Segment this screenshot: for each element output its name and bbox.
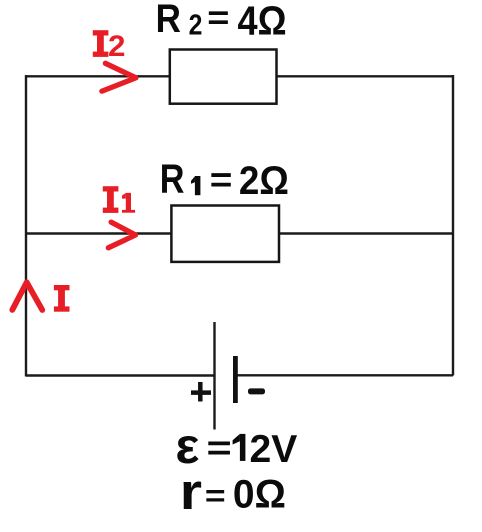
svg-text:4Ω: 4Ω: [238, 0, 287, 44]
svg-text:=: =: [207, 0, 229, 37]
svg-text:=: =: [206, 429, 231, 467]
svg-text:2V: 2V: [250, 428, 298, 471]
svg-text:r: r: [180, 464, 202, 521]
svg-text:=: =: [205, 479, 226, 513]
svg-text:=: =: [210, 160, 233, 199]
svg-text:0Ω: 0Ω: [233, 472, 286, 517]
svg-text:R: R: [156, 0, 181, 41]
svg-text:2: 2: [189, 9, 203, 41]
svg-text:2: 2: [108, 31, 125, 63]
svg-text:2Ω: 2Ω: [239, 158, 289, 203]
svg-text:R: R: [160, 156, 185, 201]
